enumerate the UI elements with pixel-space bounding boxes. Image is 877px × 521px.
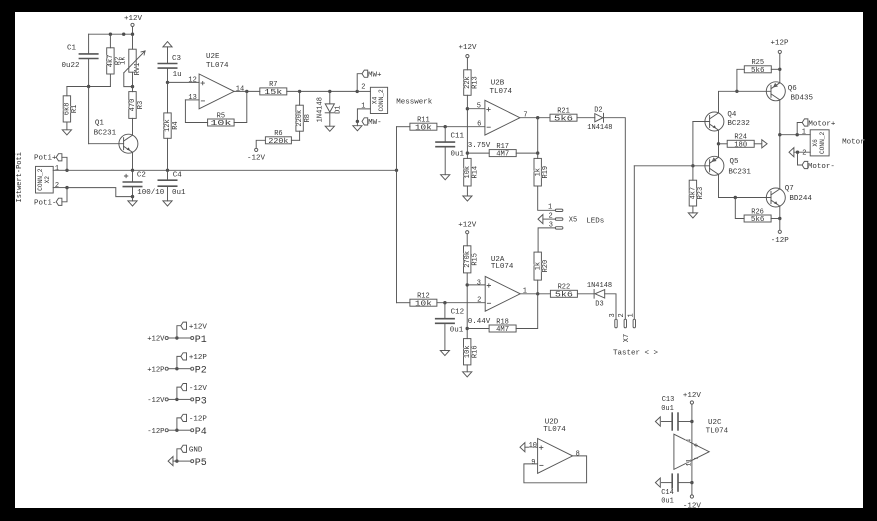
- ground (C11): [441, 175, 450, 180]
- svg-text:3: 3: [477, 279, 481, 287]
- node R17-left: [466, 151, 469, 154]
- svg-text:-12V: -12V: [683, 503, 702, 511]
- resistor R26: [744, 215, 771, 222]
- svg-text:R20: R20: [542, 260, 550, 273]
- node MW+ flag: [357, 74, 362, 92]
- svg-text:2: 2: [477, 297, 481, 305]
- svg-text:R13: R13: [472, 76, 480, 89]
- svg-text:C14: C14: [661, 489, 674, 497]
- svg-text:R6: R6: [274, 130, 282, 138]
- svg-text:R15: R15: [472, 253, 480, 266]
- svg-text:C11: C11: [451, 132, 465, 140]
- svg-text:TL074: TL074: [491, 263, 514, 271]
- svg-text:-12P: -12P: [189, 416, 208, 424]
- svg-text:RV1: RV1: [134, 63, 142, 76]
- node C3-R4: [166, 81, 169, 84]
- svg-text:0u1: 0u1: [661, 497, 674, 505]
- svg-text:C2: C2: [137, 172, 146, 180]
- svg-text:Messwerk: Messwerk: [396, 98, 433, 106]
- svg-text:Q7: Q7: [785, 185, 794, 193]
- connector X2: [36, 166, 54, 193]
- svg-text:TL074: TL074: [206, 62, 229, 70]
- flag +12P (P2): [177, 356, 181, 368]
- node C14: [690, 481, 693, 484]
- svg-text:CONN_2: CONN_2: [37, 168, 44, 191]
- svg-text:11: 11: [685, 459, 692, 467]
- flag -12V (P3): [177, 387, 181, 399]
- svg-text:+12V: +12V: [683, 392, 702, 400]
- left arrow terminal (C14): [655, 478, 660, 487]
- svg-text:CONN_2: CONN_2: [378, 89, 385, 112]
- node U2B-out: [536, 116, 539, 119]
- resistor R5 feedback: [185, 100, 207, 123]
- node C1-base: [87, 85, 90, 88]
- svg-text:Poti-: Poti-: [34, 199, 57, 207]
- svg-text:4M7: 4M7: [496, 151, 509, 159]
- svg-text:5k6: 5k6: [555, 291, 574, 299]
- svg-text:-12P: -12P: [771, 237, 790, 245]
- svg-text:R24: R24: [734, 134, 747, 142]
- svg-text:+12V: +12V: [147, 336, 165, 344]
- svg-text:TL074: TL074: [490, 88, 513, 96]
- svg-text:0.44V: 0.44V: [468, 318, 491, 326]
- svg-text:+12V: +12V: [189, 323, 208, 331]
- svg-text:2: 2: [361, 84, 365, 92]
- svg-text:5k6: 5k6: [554, 115, 574, 123]
- wire Poti- bus: [67, 188, 133, 197]
- svg-text:R16: R16: [472, 345, 480, 358]
- svg-text:Istwert-Poti: Istwert-Poti: [16, 152, 24, 202]
- svg-text:2: 2: [802, 150, 806, 158]
- svg-text:10k: 10k: [415, 124, 433, 132]
- resistor R20: [534, 252, 541, 280]
- svg-text:Q5: Q5: [730, 158, 740, 166]
- node MW-: [356, 120, 359, 123]
- svg-text:3.75V: 3.75V: [468, 142, 491, 150]
- node C4-top: [166, 169, 169, 172]
- node D1: [328, 90, 331, 93]
- connector X4: [370, 87, 387, 113]
- resistor R24: [719, 143, 728, 145]
- resistor R3: [132, 87, 134, 92]
- capacitor C12: [444, 303, 446, 319]
- resistor R2: [109, 34, 111, 48]
- svg-text:BC232: BC232: [727, 120, 750, 128]
- node C2-top: [131, 169, 134, 172]
- node rail-mid: [122, 33, 125, 36]
- svg-text:5k6: 5k6: [751, 216, 765, 224]
- flag -12P (P4): [177, 418, 181, 430]
- svg-text:BD435: BD435: [791, 95, 814, 103]
- resistor R25: [744, 66, 771, 73]
- svg-text:1N4148: 1N4148: [587, 124, 612, 132]
- svg-text:Taster < >: Taster < >: [613, 349, 659, 357]
- power pin P5: [168, 457, 173, 466]
- capacitor C11: [444, 127, 446, 142]
- svg-text:6: 6: [477, 121, 481, 129]
- svg-text:1N4148: 1N4148: [316, 97, 324, 122]
- resistor R13: [464, 70, 471, 96]
- node C11: [444, 125, 447, 128]
- svg-text:14: 14: [236, 86, 244, 94]
- svg-text:15k: 15k: [264, 89, 283, 97]
- node R17-R19: [536, 151, 539, 154]
- ground (R1): [62, 130, 71, 135]
- wire main bus: [67, 169, 397, 171]
- svg-text:C13: C13: [662, 396, 675, 404]
- wire R1-R2 row: [67, 86, 111, 88]
- svg-text:BC231: BC231: [94, 129, 117, 137]
- svg-text:R14: R14: [472, 166, 480, 179]
- resistor R14: [464, 158, 471, 186]
- svg-text:R5: R5: [217, 112, 225, 120]
- node U2E-out: [245, 90, 248, 93]
- svg-text:R26: R26: [751, 208, 764, 216]
- resistor R11: [397, 126, 410, 128]
- pin 10 (U2D+): [520, 443, 525, 452]
- ground (R14): [463, 196, 472, 201]
- resistor R23: [692, 166, 694, 180]
- node Motor-: [796, 151, 799, 154]
- node R26-branch: [734, 196, 737, 199]
- node bases: [691, 164, 694, 167]
- svg-text:R4: R4: [172, 121, 180, 129]
- svg-text:D1: D1: [334, 105, 342, 113]
- svg-text:Motor: Motor: [842, 139, 865, 147]
- svg-text:1k: 1k: [120, 56, 128, 64]
- svg-text:+12P: +12P: [147, 366, 164, 374]
- svg-text:R23: R23: [697, 187, 705, 200]
- node R26-right: [778, 217, 781, 220]
- resistor R8: [299, 91, 301, 105]
- potentiometer RV1: [132, 34, 134, 49]
- node rail-R2: [109, 33, 112, 36]
- svg-text:P4: P4: [195, 427, 207, 438]
- wire Q5emitter-Q7base: [719, 197, 772, 199]
- svg-text:+12P: +12P: [770, 40, 789, 48]
- svg-text:R11: R11: [417, 117, 430, 125]
- node U2A-out: [536, 292, 539, 295]
- svg-text:12: 12: [188, 76, 196, 84]
- svg-text:R22: R22: [558, 284, 571, 292]
- node RV1-R3: [131, 85, 134, 88]
- svg-text:MW+: MW+: [368, 71, 382, 79]
- svg-text:-12V: -12V: [147, 397, 165, 405]
- node rail-RV1: [131, 33, 134, 36]
- svg-text:180: 180: [734, 141, 747, 149]
- resistor R7: [260, 88, 287, 95]
- svg-text:13: 13: [188, 94, 196, 102]
- svg-text:R25: R25: [751, 59, 764, 67]
- -12V supply terminal: [255, 148, 258, 151]
- svg-text:R17: R17: [496, 143, 509, 151]
- svg-text:Poti+: Poti+: [34, 155, 57, 163]
- svg-text:Q1: Q1: [95, 119, 105, 127]
- svg-text:MW-: MW-: [368, 119, 382, 127]
- svg-text:P5: P5: [195, 458, 207, 469]
- node R18-left: [466, 327, 469, 330]
- diode D1: [329, 91, 331, 104]
- svg-text:1: 1: [523, 288, 527, 296]
- svg-text:-12V: -12V: [189, 385, 208, 393]
- svg-text:-12V: -12V: [247, 155, 266, 163]
- right arrow terminal (R24): [762, 140, 767, 148]
- svg-text:R1: R1: [71, 105, 79, 113]
- resistor R17: [467, 152, 489, 154]
- svg-text:Motor-: Motor-: [808, 163, 835, 171]
- flag +12V (P1): [177, 326, 181, 338]
- node C13: [690, 420, 693, 423]
- svg-text:P1: P1: [195, 335, 207, 346]
- node R7-R8: [298, 90, 301, 93]
- svg-text:C3: C3: [172, 55, 182, 63]
- transistor Q1: [88, 87, 90, 144]
- node motor: [778, 133, 781, 136]
- resistor R12: [397, 302, 410, 304]
- svg-text:2: 2: [55, 182, 59, 190]
- svg-text:R12: R12: [417, 293, 430, 301]
- node C12: [443, 301, 446, 304]
- resistor R4: [167, 82, 169, 113]
- svg-text:0u22: 0u22: [62, 62, 80, 70]
- ground (C4): [163, 201, 172, 206]
- svg-text:1u: 1u: [173, 71, 182, 79]
- svg-text:U2B: U2B: [491, 80, 505, 88]
- svg-text:8: 8: [576, 450, 580, 458]
- svg-text:R18: R18: [496, 318, 509, 326]
- wire bases-X7: [634, 165, 693, 167]
- svg-text:0u1: 0u1: [661, 405, 674, 413]
- wire +12V rail: [89, 33, 133, 35]
- svg-text:R8: R8: [304, 114, 312, 122]
- node Q6-base: [735, 90, 738, 93]
- transistor Q6: [737, 90, 771, 92]
- svg-text:3: 3: [609, 313, 617, 317]
- ground arrow above C3: [163, 42, 172, 47]
- svg-text:LEDs: LEDs: [586, 217, 604, 225]
- svg-text:C4: C4: [173, 172, 183, 180]
- svg-text:BC231: BC231: [728, 169, 751, 177]
- svg-text:4M7: 4M7: [496, 326, 509, 334]
- ground (MW-): [353, 126, 362, 131]
- svg-text:TL074: TL074: [706, 428, 729, 436]
- node C2-bottom: [131, 195, 134, 198]
- svg-text:+12V: +12V: [458, 44, 477, 52]
- resistor R18: [467, 328, 489, 330]
- resistor R1: [66, 87, 68, 96]
- left arrow terminal (X6-2): [789, 148, 794, 157]
- flag GND (P5): [177, 449, 181, 461]
- node R25-right: [778, 68, 781, 71]
- svg-text:7: 7: [523, 112, 527, 120]
- svg-text:1: 1: [55, 165, 59, 173]
- svg-text:R19: R19: [542, 166, 550, 179]
- svg-text:R7: R7: [269, 81, 277, 89]
- resistor R22: [550, 290, 577, 297]
- svg-text:P2: P2: [195, 366, 207, 377]
- svg-text:Q4: Q4: [727, 111, 737, 119]
- wire Q4base-Q5base: [692, 122, 694, 166]
- left arrow terminal (C13): [655, 417, 660, 426]
- svg-text:U2E: U2E: [206, 53, 220, 61]
- svg-text:CONN_2: CONN_2: [819, 131, 826, 154]
- svg-text:4: 4: [685, 439, 692, 443]
- -12V supply terminal (U2C): [691, 483, 693, 495]
- svg-text:X2: X2: [44, 176, 51, 184]
- svg-text:P3: P3: [195, 396, 207, 407]
- svg-text:10k: 10k: [210, 120, 232, 128]
- svg-text:0u1: 0u1: [450, 326, 464, 334]
- ground (C12): [440, 351, 449, 356]
- svg-text:-12P: -12P: [147, 428, 164, 436]
- svg-text:0u1: 0u1: [451, 150, 465, 158]
- node X4-2: [356, 90, 359, 93]
- connector X6: [810, 130, 829, 156]
- svg-text:220k: 220k: [268, 138, 289, 146]
- resistor R16: [464, 339, 471, 365]
- svg-text:2: 2: [618, 313, 626, 317]
- svg-text:10k: 10k: [415, 300, 433, 308]
- svg-text:R21: R21: [557, 108, 570, 116]
- ground (C2): [128, 201, 137, 206]
- svg-text:BD244: BD244: [789, 195, 812, 203]
- ground (R16): [463, 372, 472, 377]
- resistor R19: [537, 153, 539, 158]
- svg-text:+12V: +12V: [124, 15, 143, 23]
- resistor R21: [550, 114, 577, 121]
- node U2A-pin3: [466, 283, 469, 286]
- svg-text:1: 1: [548, 204, 552, 212]
- node Motor+ flag: [797, 123, 802, 135]
- svg-text:TL074: TL074: [543, 426, 566, 434]
- svg-text:GND: GND: [189, 447, 203, 455]
- svg-text:X5: X5: [569, 217, 577, 225]
- svg-text:0u1: 0u1: [172, 189, 186, 197]
- -12P supply terminal: [779, 219, 781, 231]
- svg-text:D2: D2: [594, 106, 602, 114]
- svg-text:5k6: 5k6: [751, 67, 765, 75]
- svg-text:10: 10: [529, 442, 537, 450]
- svg-text:1N4148: 1N4148: [587, 282, 612, 290]
- resistor R15: [464, 246, 471, 273]
- svg-text:Q6: Q6: [788, 85, 798, 93]
- node R24: [717, 142, 720, 145]
- svg-text:C12: C12: [451, 308, 465, 316]
- svg-text:+12V: +12V: [458, 221, 477, 229]
- svg-text:100/10: 100/10: [137, 189, 165, 197]
- ground (R23): [688, 213, 697, 218]
- svg-text:U2C: U2C: [708, 419, 722, 427]
- svg-text:C1: C1: [67, 44, 77, 52]
- node bus-branch: [395, 169, 398, 172]
- svg-text:9: 9: [531, 459, 535, 467]
- node U2B-pin5: [466, 107, 469, 110]
- svg-text:D3: D3: [595, 301, 603, 309]
- wire Q6base-Q4coll: [719, 91, 737, 113]
- svg-text:X6: X6: [812, 139, 819, 147]
- ground (D1): [325, 126, 334, 131]
- svg-text:X7: X7: [623, 334, 631, 342]
- svg-text:+12P: +12P: [189, 354, 208, 362]
- svg-text:1: 1: [802, 129, 806, 137]
- resistor R6: [265, 137, 291, 144]
- svg-text:Motor+: Motor+: [808, 120, 836, 128]
- svg-text:R3: R3: [137, 101, 145, 109]
